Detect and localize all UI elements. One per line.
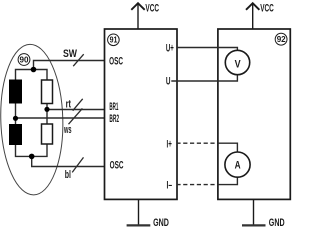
svg-text:I+: I+ (167, 138, 172, 150)
svg-text:SW: SW (63, 48, 77, 60)
svg-text:A: A (235, 159, 241, 171)
svg-text:ws: ws (63, 124, 71, 136)
svg-text:92: 92 (277, 34, 286, 44)
svg-text:BR2: BR2 (109, 113, 119, 125)
svg-text:BR1: BR1 (109, 101, 118, 113)
svg-text:VCC: VCC (260, 2, 274, 14)
svg-text:bl: bl (65, 169, 71, 181)
svg-text:OSC: OSC (109, 56, 123, 68)
svg-text:OSC: OSC (110, 159, 124, 171)
svg-text:U+: U+ (166, 43, 174, 55)
svg-text:91: 91 (110, 35, 118, 45)
svg-text:U: U (166, 75, 171, 87)
svg-text:GND: GND (269, 217, 285, 229)
svg-text:GND: GND (153, 217, 169, 229)
svg-text:I–: I– (167, 180, 173, 192)
svg-text:VCC: VCC (145, 2, 159, 14)
svg-text:V: V (235, 58, 242, 70)
svg-text:rt: rt (66, 99, 72, 111)
svg-text:90: 90 (20, 55, 29, 65)
